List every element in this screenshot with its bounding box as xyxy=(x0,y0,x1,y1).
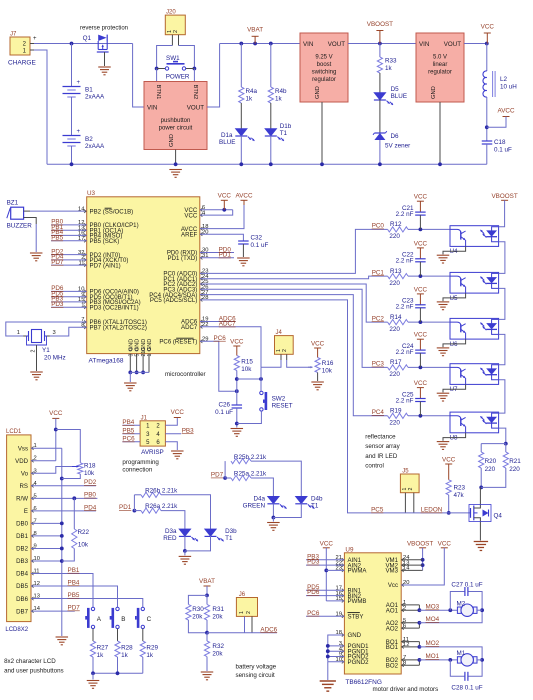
svg-text:2.2 nF: 2.2 nF xyxy=(396,211,414,218)
wire PB6 to crystal xyxy=(6,322,87,336)
wire U5 emitter to ground xyxy=(443,293,466,301)
LED D5 BLUE xyxy=(374,86,407,133)
svg-text:C: C xyxy=(147,616,152,623)
svg-text:RS: RS xyxy=(20,483,28,490)
svg-text:LCD8X2: LCD8X2 xyxy=(5,627,28,633)
svg-text:PB4: PB4 xyxy=(68,579,80,586)
svg-text:J5: J5 xyxy=(402,469,409,475)
pushbutton B xyxy=(110,607,126,641)
wire linear VOUT to VCC xyxy=(464,42,489,46)
svg-text:PC4: PC4 xyxy=(372,409,385,416)
svg-text:VCC: VCC xyxy=(442,456,456,463)
svg-text:VCC: VCC xyxy=(414,240,428,247)
connector J1 AVRISP xyxy=(140,415,165,456)
svg-text:220: 220 xyxy=(389,280,400,287)
resistor R17 220 xyxy=(388,359,450,378)
svg-text:VCC: VCC xyxy=(171,409,185,416)
svg-text:DB2: DB2 xyxy=(16,546,28,553)
svg-text:PB2 (SS/OC1B): PB2 (SS/OC1B) xyxy=(90,209,134,216)
wire linear GND xyxy=(438,102,442,166)
svg-text:R18: R18 xyxy=(84,462,96,469)
svg-text:R30: R30 xyxy=(192,606,204,613)
resistor R4a 1k xyxy=(239,44,258,129)
svg-text:motor driver and motors: motor driver and motors xyxy=(373,686,439,693)
svg-text:20k: 20k xyxy=(212,614,223,621)
wire button commons xyxy=(91,671,143,679)
svg-text:PD3: PD3 xyxy=(307,559,320,566)
ground BZ1 xyxy=(30,253,43,261)
svg-text:PB5: PB5 xyxy=(51,235,63,242)
svg-text:+: + xyxy=(77,129,81,135)
svg-text:10k: 10k xyxy=(84,470,95,477)
svg-text:20k: 20k xyxy=(192,614,203,621)
svg-text:J1: J1 xyxy=(141,415,148,421)
svg-text:2: 2 xyxy=(246,611,252,614)
svg-text:D3b: D3b xyxy=(225,528,237,535)
svg-text:PD6: PD6 xyxy=(307,589,320,596)
svg-text:VBAT: VBAT xyxy=(199,578,215,585)
resistor R32 20k xyxy=(204,633,224,671)
svg-text:R4a: R4a xyxy=(246,88,258,95)
svg-text:2: 2 xyxy=(282,349,288,352)
svg-text:microcontroller: microcontroller xyxy=(165,371,206,378)
svg-text:PD7: PD7 xyxy=(51,259,64,266)
power flag VCC PWMA xyxy=(320,540,345,601)
wire PC0 xyxy=(200,223,388,274)
svg-text:PC5 (ADC5/SCL): PC5 (ADC5/SCL) xyxy=(150,297,197,304)
wire PC3 xyxy=(200,289,388,367)
svg-text:PC6: PC6 xyxy=(214,335,227,342)
svg-text:PC2: PC2 xyxy=(372,315,385,322)
svg-text:regulator: regulator xyxy=(428,70,452,76)
svg-text:C27 0.1 uF: C27 0.1 uF xyxy=(451,581,482,588)
svg-text:1k: 1k xyxy=(385,65,393,72)
ground U7 xyxy=(437,393,450,401)
wire U8 emitter to ground xyxy=(443,433,466,441)
svg-text:DB7: DB7 xyxy=(16,608,28,615)
svg-text:VBOOST: VBOOST xyxy=(407,540,433,547)
wire boost GND xyxy=(320,102,324,166)
svg-text:VBOOST: VBOOST xyxy=(367,21,393,28)
svg-text:VCC: VCC xyxy=(320,540,334,547)
svg-text:10k: 10k xyxy=(241,366,252,373)
resistor R26a 2.21k xyxy=(134,503,185,529)
svg-text:BLUE: BLUE xyxy=(391,93,407,100)
svg-text:R27: R27 xyxy=(97,645,109,652)
svg-text:PD4: PD4 xyxy=(84,504,97,511)
wire MO1 net xyxy=(401,653,457,665)
resistor R27 1k xyxy=(90,641,108,673)
svg-text:220: 220 xyxy=(509,466,520,473)
svg-text:D4b: D4b xyxy=(311,495,323,502)
resistor R20 220 xyxy=(479,444,506,490)
svg-text:regulator: regulator xyxy=(312,77,336,83)
svg-text:R22: R22 xyxy=(78,529,90,536)
power flag VBAT xyxy=(247,27,263,44)
ground LCD bus xyxy=(56,637,69,645)
svg-text:PB7 (XTAL2/TOSC2): PB7 (XTAL2/TOSC2) xyxy=(90,325,147,332)
wires U9 left nets xyxy=(306,553,344,616)
U3 right pin names and numbers xyxy=(149,205,209,346)
resistor R31 20k xyxy=(204,595,224,634)
wire DB6 net PB5 to button C xyxy=(31,592,143,607)
svg-text:R19: R19 xyxy=(390,408,402,415)
ground U6 xyxy=(437,348,450,356)
capacitor C23 2.2nF xyxy=(396,286,428,322)
svg-text:BO2: BO2 xyxy=(386,662,399,669)
buzzer BZ1 xyxy=(7,200,87,253)
capacitor C26 0.1uF xyxy=(215,402,242,428)
power flag AVCC U3 xyxy=(235,193,252,206)
svg-text:Vcc: Vcc xyxy=(388,582,398,589)
potentiometer R18 10k xyxy=(56,430,96,479)
svg-text:AO1: AO1 xyxy=(386,607,399,614)
svg-text:PB4: PB4 xyxy=(122,419,134,426)
wire U3 ground pins xyxy=(128,354,149,382)
ground R32 xyxy=(201,672,214,680)
svg-text:VM3: VM3 xyxy=(385,568,398,575)
wire J1 pin4 net PB3 xyxy=(165,427,194,434)
svg-text:power circuit: power circuit xyxy=(159,126,193,132)
svg-text:DB3: DB3 xyxy=(16,558,28,565)
wire J1 pin2 to VCC xyxy=(165,418,177,426)
svg-text:2.2 nF: 2.2 nF xyxy=(396,397,414,404)
wire U3 AREF xyxy=(200,234,244,241)
svg-text:PB5: PB5 xyxy=(68,592,80,599)
module 9.25V boost switching regulator xyxy=(300,33,348,102)
svg-text:1: 1 xyxy=(147,354,153,357)
svg-text:PD7: PD7 xyxy=(211,472,224,479)
wire U6 emitter to ground xyxy=(443,339,466,347)
capacitor C25 2.2nF xyxy=(396,380,428,416)
svg-text:VCC: VCC xyxy=(481,23,495,30)
capacitor C21 2.2nF xyxy=(396,194,428,230)
wire PC4 xyxy=(200,295,388,416)
svg-text:PD3: PD3 xyxy=(51,301,64,308)
svg-text:0.1 uF: 0.1 uF xyxy=(251,242,269,249)
transistor Q4 MOSFET xyxy=(469,487,502,540)
ground U4 xyxy=(437,255,450,263)
svg-text:Vss: Vss xyxy=(18,445,28,452)
svg-text:VIN: VIN xyxy=(303,41,313,48)
connector J4 xyxy=(275,330,294,360)
power flag VBOOST xyxy=(367,21,393,44)
svg-text:BLUE: BLUE xyxy=(219,139,235,146)
svg-text:1k: 1k xyxy=(275,96,283,103)
svg-text:2.2 nF: 2.2 nF xyxy=(396,258,414,265)
wire PC5 / LEDON xyxy=(200,300,471,514)
svg-text:T1: T1 xyxy=(280,130,288,137)
svg-text:VIN: VIN xyxy=(419,41,429,48)
module 5.0V linear regulator xyxy=(416,33,464,102)
svg-text:T1: T1 xyxy=(311,502,319,509)
svg-text:220: 220 xyxy=(389,233,400,240)
svg-text:J7: J7 xyxy=(10,32,17,38)
svg-text:BZ1: BZ1 xyxy=(7,200,19,207)
wire VOUT to VBAT rail xyxy=(207,42,300,107)
svg-text:D5: D5 xyxy=(391,86,400,93)
svg-text:3: 3 xyxy=(53,330,56,336)
svg-text:VCC: VCC xyxy=(414,194,428,201)
svg-text:R16: R16 xyxy=(322,360,334,367)
svg-text:R31: R31 xyxy=(212,606,224,613)
wire ADC7 net xyxy=(200,321,261,368)
svg-text:connection: connection xyxy=(122,467,152,474)
wire U9 GND pins xyxy=(326,635,345,680)
svg-text:R25a 2.21k: R25a 2.21k xyxy=(234,471,267,478)
svg-text:D3a: D3a xyxy=(165,528,177,535)
svg-text:220: 220 xyxy=(389,371,400,378)
wires U3 left port nets xyxy=(51,219,87,308)
svg-text:CHARGE: CHARGE xyxy=(8,60,36,67)
wire Vo to R18 wiper xyxy=(31,467,72,474)
svg-text:ADC7: ADC7 xyxy=(181,324,198,331)
wire ground rail xyxy=(47,162,487,166)
svg-text:RED: RED xyxy=(163,535,177,542)
LED D1b xyxy=(265,123,292,166)
power flag VCC xyxy=(481,23,495,43)
svg-text:R12: R12 xyxy=(390,221,402,228)
optical sensor U4 xyxy=(450,226,499,256)
svg-text:C32: C32 xyxy=(251,235,263,242)
svg-text:2.2 nF: 2.2 nF xyxy=(396,304,414,311)
capacitor C28 0.1uF xyxy=(450,657,484,692)
svg-text:BTN2: BTN2 xyxy=(192,85,198,100)
wire DB5 net PB4 to button B xyxy=(31,579,118,607)
U9 right pin names and numbers xyxy=(385,555,410,669)
svg-text:DB5: DB5 xyxy=(16,583,28,590)
zener diode D6 5V xyxy=(373,131,410,166)
svg-text:PC3: PC3 xyxy=(372,361,385,368)
svg-text:PWMB: PWMB xyxy=(348,598,367,605)
power flag VCC LCD xyxy=(49,410,63,461)
svg-text:VBOOST: VBOOST xyxy=(491,193,517,200)
svg-text:+: + xyxy=(77,80,81,86)
resistor R13 220 xyxy=(388,268,450,287)
svg-text:Q1: Q1 xyxy=(83,35,92,42)
svg-text:8x2 character LCD: 8x2 character LCD xyxy=(4,658,56,665)
inductor L2 10uH xyxy=(483,44,517,142)
resistor R33 1k xyxy=(377,44,397,93)
wire IR LED series chain xyxy=(499,200,508,445)
wire DB4 net PB1 to button A xyxy=(31,567,93,607)
IC U9 TB6612FNG motor driver xyxy=(344,546,438,693)
wire R/W net PB0 xyxy=(31,492,97,501)
svg-text:R13: R13 xyxy=(390,268,402,275)
wire MO4 net xyxy=(401,613,482,628)
optical sensor U6 xyxy=(450,318,499,348)
svg-text:VOUT: VOUT xyxy=(187,104,204,111)
wire U7 emitter to ground xyxy=(443,384,466,392)
svg-text:BO1: BO1 xyxy=(386,644,399,651)
svg-text:R4b: R4b xyxy=(275,88,287,95)
svg-text:STBY: STBY xyxy=(348,613,364,620)
resistor R4b 1k xyxy=(268,44,287,129)
motor M1 xyxy=(457,650,478,666)
svg-text:U9: U9 xyxy=(345,546,354,553)
svg-text:9.25 V: 9.25 V xyxy=(315,55,332,61)
svg-text:MO3: MO3 xyxy=(426,604,440,611)
svg-text:1k: 1k xyxy=(246,96,254,103)
svg-text:VDD: VDD xyxy=(15,458,28,465)
svg-text:PD3 (OC2B/INT1): PD3 (OC2B/INT1) xyxy=(90,304,139,311)
wire SW1 to BTN pins xyxy=(157,69,195,82)
annotation battery voltage sensing xyxy=(236,664,277,680)
ground U5 xyxy=(437,302,450,310)
wire J4 pins xyxy=(261,360,313,368)
svg-text:PB3: PB3 xyxy=(182,427,194,434)
svg-text:R17: R17 xyxy=(390,359,402,366)
wire E net PD4 xyxy=(31,504,97,511)
LED D4a GREEN xyxy=(243,495,287,519)
resistor R29 1k xyxy=(140,641,158,673)
svg-text:VCC: VCC xyxy=(311,341,325,348)
svg-text:R33: R33 xyxy=(385,58,397,65)
svg-text:MO2: MO2 xyxy=(426,640,440,647)
ground rail symbol xyxy=(169,170,182,178)
svg-text:3: 3 xyxy=(128,354,134,357)
svg-text:2: 2 xyxy=(31,350,37,353)
wire VDD to VCC xyxy=(31,460,56,462)
svg-text:DB1: DB1 xyxy=(16,533,28,540)
svg-text:2xAAA: 2xAAA xyxy=(85,94,105,101)
power flag VBAT sense xyxy=(199,578,215,597)
svg-text:GND: GND xyxy=(348,632,362,639)
svg-text:VCC: VCC xyxy=(438,540,452,547)
resistor R21 220 xyxy=(481,444,521,488)
svg-text:PB5 (SCK): PB5 (SCK) xyxy=(90,238,120,245)
svg-text:M1: M1 xyxy=(457,650,466,657)
svg-text:5: 5 xyxy=(135,354,141,357)
resistor R16 10k xyxy=(315,358,334,382)
svg-text:PB0: PB0 xyxy=(84,492,96,499)
svg-text:PGND2: PGND2 xyxy=(348,659,370,666)
svg-text:R26a 2.21k: R26a 2.21k xyxy=(145,503,178,510)
wire PC2 xyxy=(200,284,388,322)
power flag AVCC xyxy=(487,108,515,128)
power flag VCC R15 xyxy=(230,339,244,356)
resistor R19 220 xyxy=(388,408,450,427)
svg-text:VCC: VCC xyxy=(49,410,63,417)
svg-text:M2: M2 xyxy=(457,600,466,607)
ground C32 xyxy=(237,258,250,266)
svg-text:0.1 uF: 0.1 uF xyxy=(494,147,512,154)
LCD module LCD1 xyxy=(5,429,31,633)
svg-text:PB5: PB5 xyxy=(122,427,134,434)
switch SW1 POWER xyxy=(157,55,195,81)
svg-text:20 MHz: 20 MHz xyxy=(44,355,66,362)
wire boost VOUT / VBOOST rail xyxy=(348,42,416,46)
svg-text:R32: R32 xyxy=(212,643,224,650)
svg-text:1k: 1k xyxy=(97,652,105,659)
U9 left pin names and numbers xyxy=(336,555,370,666)
power flag VBOOST U9 xyxy=(401,540,433,570)
svg-text:2: 2 xyxy=(173,30,179,33)
svg-text:LCD1: LCD1 xyxy=(6,429,22,435)
capacitor C27 0.1uF xyxy=(450,581,484,613)
motor M2 xyxy=(457,600,478,616)
svg-text:D1a: D1a xyxy=(221,132,233,139)
wire PC1 xyxy=(200,269,388,278)
wire charge+ xyxy=(34,42,133,46)
svg-text:AVCC: AVCC xyxy=(235,193,252,200)
svg-text:sensing circuit: sensing circuit xyxy=(236,672,275,679)
wire MO2 net xyxy=(401,640,482,656)
wire DB7 net PD7 xyxy=(31,604,80,611)
svg-text:R23: R23 xyxy=(454,485,466,492)
svg-text:VOUT: VOUT xyxy=(328,41,345,48)
wire U3 VCC pins xyxy=(200,208,233,215)
capacitor C18 0.1uF xyxy=(482,139,512,164)
resistor R25a 2.21k xyxy=(225,471,273,497)
svg-text:R21: R21 xyxy=(509,458,521,465)
svg-text:20k: 20k xyxy=(212,651,223,658)
LCD1 pin names and numbers xyxy=(15,443,41,615)
LED D4b xyxy=(273,495,323,521)
resistor R14 220 xyxy=(388,314,450,333)
svg-text:boost: boost xyxy=(317,62,332,68)
resistor R26b 2.21k xyxy=(134,487,210,529)
svg-text:D6: D6 xyxy=(391,133,400,140)
ground Q1 xyxy=(98,67,111,75)
ground C26 xyxy=(231,429,244,437)
svg-text:POWER: POWER xyxy=(166,74,190,81)
wire charge- xyxy=(34,50,47,164)
svg-text:D4a: D4a xyxy=(253,495,265,502)
wire PC6 net xyxy=(200,335,239,393)
ground D3 xyxy=(179,556,192,564)
wire U4 emitter to ground xyxy=(443,246,466,254)
wire RS net PD2 xyxy=(31,479,97,486)
wire J1 pin6 to ground xyxy=(165,442,177,450)
ground Y1 xyxy=(30,372,43,380)
power flag VCC R23 xyxy=(442,456,456,480)
svg-text:BTN1: BTN1 xyxy=(155,85,161,100)
svg-text:1k: 1k xyxy=(146,652,154,659)
svg-text:VCC: VCC xyxy=(414,286,428,293)
svg-text:5V zener: 5V zener xyxy=(385,143,410,150)
svg-text:R25b 2.21k: R25b 2.21k xyxy=(234,454,267,461)
svg-text:B1: B1 xyxy=(85,87,93,94)
svg-text:GND: GND xyxy=(431,86,437,99)
svg-text:battery voltage: battery voltage xyxy=(236,664,277,671)
annotation programming connection xyxy=(122,459,159,474)
svg-text:GREEN: GREEN xyxy=(243,502,266,509)
svg-text:Y1: Y1 xyxy=(42,347,50,354)
wire PD7 LED net xyxy=(211,461,227,480)
resistor R15 10k xyxy=(234,356,253,406)
resistor R30 20k xyxy=(186,595,207,632)
svg-text:2xAAA: 2xAAA xyxy=(85,143,105,150)
svg-text:and IR LED: and IR LED xyxy=(365,453,398,460)
svg-text:AREF: AREF xyxy=(181,231,198,238)
wire J20 to SW1 xyxy=(155,46,197,71)
svg-text:R20: R20 xyxy=(485,458,497,465)
svg-text:VCC: VCC xyxy=(184,212,197,219)
ground Q4 xyxy=(474,542,488,551)
svg-text:2: 2 xyxy=(408,488,414,491)
svg-text:ADC6: ADC6 xyxy=(260,626,277,633)
svg-text:PC6 (RESET): PC6 (RESET) xyxy=(159,339,197,346)
crystal Y1 20MHz xyxy=(17,330,66,372)
svg-text:DB4: DB4 xyxy=(16,571,28,578)
svg-text:RESET: RESET xyxy=(272,403,293,410)
wire PD1 LED net xyxy=(119,495,136,513)
svg-text:PD2: PD2 xyxy=(84,479,97,486)
ground J1 xyxy=(171,451,184,459)
svg-text:AVCC: AVCC xyxy=(497,108,514,115)
wire U3 AVCC pin xyxy=(200,205,244,229)
